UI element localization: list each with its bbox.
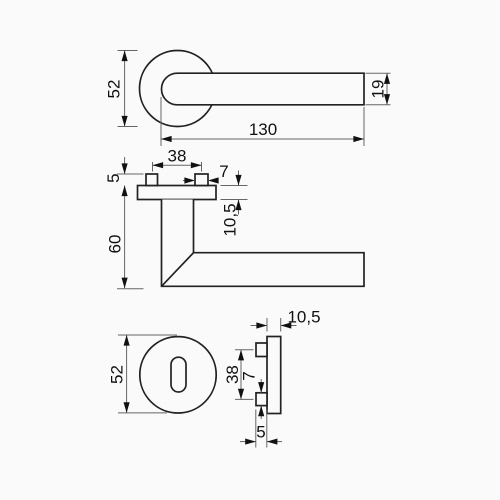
svg-text:19: 19 <box>368 80 387 99</box>
rose plate <box>138 186 217 200</box>
svg-text:60: 60 <box>105 235 124 254</box>
keyhole slot <box>171 357 186 392</box>
dim 52 (bottom) <box>118 335 177 413</box>
dim 7 (middle) <box>183 180 195 182</box>
dim 5 (bottom) <box>256 410 267 448</box>
dim 10,5 (bottom) <box>267 318 281 332</box>
dim 60 (middle) <box>117 288 144 290</box>
svg-text:7: 7 <box>240 371 259 380</box>
screw lug right <box>195 174 208 186</box>
escutcheon plate <box>267 337 281 414</box>
dim 130 line <box>161 138 364 140</box>
dim 19 ext lines <box>366 73 391 104</box>
dim 130 ext lines <box>161 97 364 146</box>
dim 7 (bottom) <box>260 379 262 393</box>
svg-text:5: 5 <box>256 423 265 442</box>
screw lug top <box>256 343 267 357</box>
screw lug left <box>146 174 158 186</box>
svg-text:5: 5 <box>104 173 123 182</box>
svg-text:52: 52 <box>107 365 126 384</box>
escutcheon circle <box>140 337 216 413</box>
svg-text:10,5: 10,5 <box>221 203 240 236</box>
dim 19 line <box>386 73 388 104</box>
svg-text:10,5: 10,5 <box>287 308 320 327</box>
lever profile <box>162 200 365 287</box>
dim 38 (middle) <box>153 162 202 172</box>
rose circle <box>140 51 216 127</box>
svg-text:38: 38 <box>168 146 187 165</box>
svg-text:7: 7 <box>219 162 228 181</box>
dim 52 line <box>124 51 126 127</box>
dim 10,5 (middle) <box>221 186 248 200</box>
elbow chamfer diagonal <box>162 253 194 287</box>
screw lug bottom <box>256 393 267 406</box>
dim 52 (top view) ext lines <box>118 51 138 127</box>
svg-text:52: 52 <box>104 80 123 99</box>
dim 38 (bottom) <box>235 350 254 400</box>
lever bar (stadium) <box>162 73 365 105</box>
svg-text:130: 130 <box>249 120 277 139</box>
dim 5 (middle) <box>117 173 144 175</box>
